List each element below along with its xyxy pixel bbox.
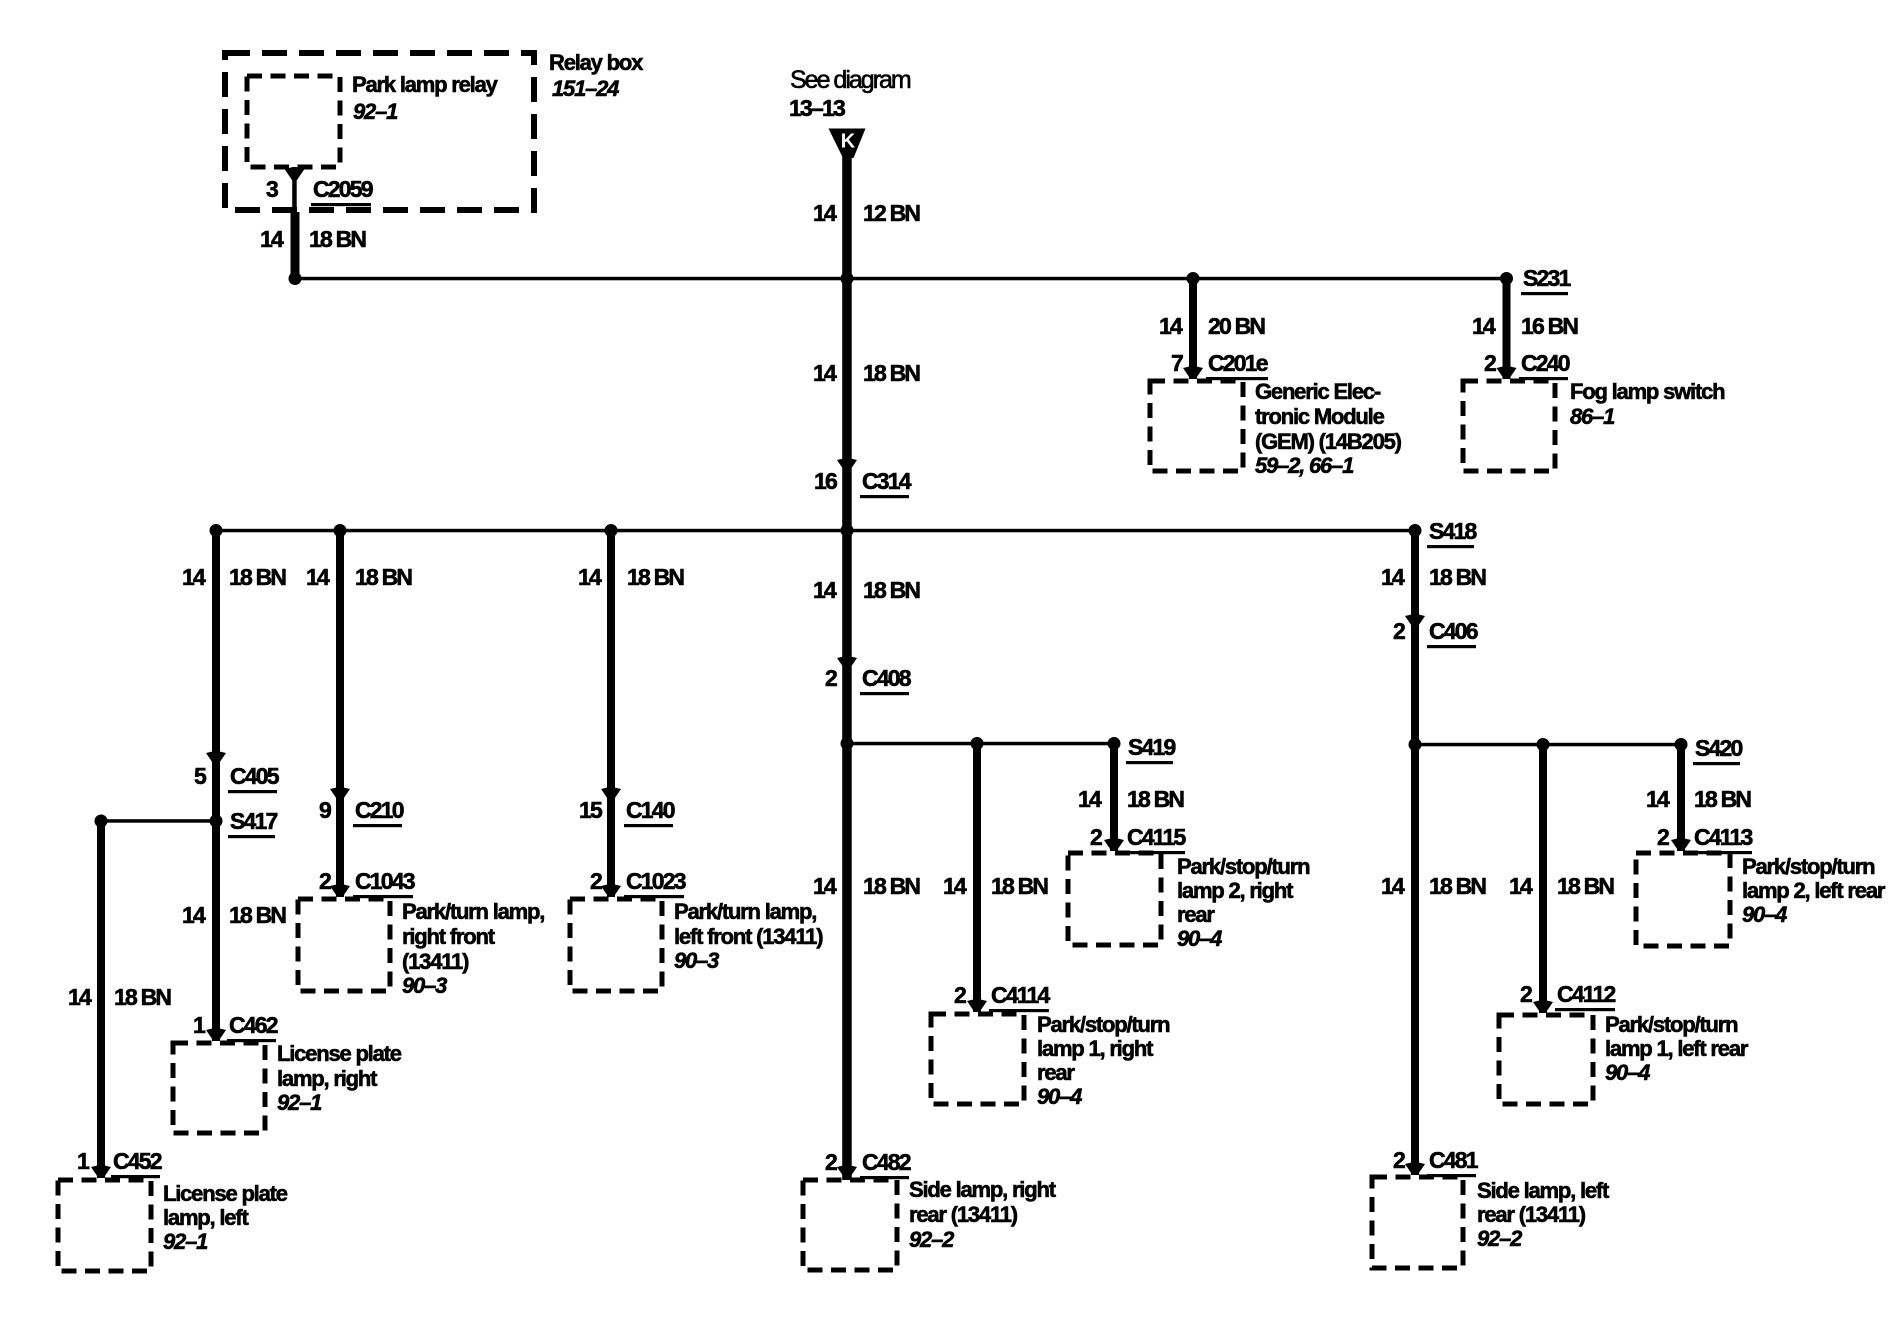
svg-text:left front (13411): left front (13411) (674, 924, 823, 949)
svg-text:92–1: 92–1 (163, 1229, 208, 1254)
wire label 14 / 18 BN (col3) (578, 564, 684, 590)
label: License plate lamp, left 92-1 (163, 1181, 288, 1254)
connector C4113 pin 2 (1657, 824, 1753, 854)
svg-text:14: 14 (1472, 313, 1496, 339)
label: See diagram 13-13 (789, 66, 911, 121)
svg-text:S417: S417 (230, 808, 278, 834)
svg-text:18 BN: 18 BN (1429, 873, 1486, 899)
relay box (outer dashed box) (225, 53, 534, 210)
svg-text:2: 2 (1090, 824, 1102, 850)
svg-text:C481: C481 (1429, 1147, 1479, 1173)
junction: splice S420 (1675, 738, 1688, 751)
park/stop/turn lamp 1 right rear (dashed box) (931, 1014, 1024, 1104)
wire label 14 / 18 BN (trunk mid) (813, 577, 920, 603)
arrow into C4114 (967, 999, 987, 1012)
svg-text:14: 14 (1381, 564, 1405, 590)
svg-text:20 BN: 20 BN (1208, 313, 1265, 339)
svg-text:14: 14 (306, 564, 330, 590)
svg-text:Park/turn lamp,: Park/turn lamp, (674, 899, 816, 924)
svg-text:Side lamp, right: Side lamp, right (909, 1177, 1057, 1202)
label: Generic Electronic Module (GEM) (14B205) 59-2, 66-1 (1255, 379, 1402, 478)
junction: col3 on bus 2 (605, 524, 618, 537)
wire: C4114 drop (x=977) (973, 743, 981, 1012)
wire: S231 drop (x=1506) (1503, 278, 1511, 379)
svg-text:C1023: C1023 (626, 868, 686, 894)
svg-text:18 BN: 18 BN (229, 564, 286, 590)
connector C408 pin 2 (825, 665, 912, 695)
connector C405 pin 5 (194, 763, 280, 793)
label: Park/stop/turn lamp 2, left rear 90-4 (1742, 854, 1886, 927)
svg-text:S420: S420 (1695, 735, 1743, 761)
connector C481 pin 2 (1393, 1147, 1479, 1177)
svg-text:59–2, 66–1: 59–2, 66–1 (1255, 453, 1354, 478)
arrow into C314 (837, 458, 857, 471)
wire: main trunk from K to side lamp (x=847) (842, 150, 852, 1180)
svg-text:3: 3 (266, 176, 278, 202)
arrow into C1043 (330, 884, 350, 897)
splice S418 label (1427, 518, 1478, 548)
connector C406 pin 2 (1393, 618, 1478, 648)
svg-text:C240: C240 (1521, 350, 1570, 376)
wire label 14 / 18 BN (right col upper) (1381, 564, 1486, 590)
svg-text:18 BN: 18 BN (355, 564, 412, 590)
wire label 14 / 18 BN (S419 drop) (1078, 786, 1184, 812)
svg-text:1: 1 (77, 1148, 90, 1174)
wire: S420 branch bus (1415, 743, 1682, 747)
label: Park/turn lamp, right front (13411) 90-3 (402, 899, 544, 998)
svg-text:C4114: C4114 (991, 982, 1051, 1008)
wire: bus 2 from col1 to S418 (215, 529, 1416, 533)
svg-text:18 BN: 18 BN (863, 360, 920, 386)
arrow into C4112 (1533, 1000, 1553, 1013)
arrow into C210 (330, 787, 350, 800)
connector C314 pin 16 (814, 468, 912, 498)
license plate lamp right (dashed box) (173, 1043, 265, 1133)
svg-text:16 BN: 16 BN (1521, 313, 1578, 339)
arrow into C4115 (1104, 838, 1124, 851)
svg-text:(13411): (13411) (402, 949, 469, 974)
junction: relay drop to bus (289, 272, 302, 285)
junction: right col at S420 branch (1409, 738, 1422, 751)
svg-text:C482: C482 (862, 1149, 911, 1175)
wire: S420 drop (x=1681) (1677, 744, 1685, 851)
svg-text:18 BN: 18 BN (1429, 564, 1486, 590)
connector C240 pin 2 (1484, 350, 1570, 380)
wire label 14 / 20 BN (1159, 313, 1265, 339)
arrow into C452 (91, 1165, 111, 1178)
svg-text:Generic Elec-: Generic Elec- (1255, 379, 1381, 404)
off-page connector triangle K (829, 129, 866, 159)
svg-text:License plate: License plate (277, 1041, 402, 1066)
svg-text:13–13: 13–13 (789, 95, 845, 121)
svg-text:18 BN: 18 BN (1557, 873, 1614, 899)
svg-text:18 BN: 18 BN (991, 873, 1048, 899)
svg-text:lamp 1, left rear: lamp 1, left rear (1605, 1036, 1749, 1061)
svg-text:14: 14 (260, 226, 284, 252)
wire: column 2 (x=340) (336, 530, 344, 897)
svg-text:Park/stop/turn: Park/stop/turn (1037, 1012, 1170, 1037)
svg-text:14: 14 (1078, 786, 1102, 812)
svg-text:Park/stop/turn: Park/stop/turn (1605, 1012, 1738, 1037)
svg-text:Relay box: Relay box (549, 50, 644, 75)
park lamp relay (inner dashed box) (247, 76, 340, 167)
svg-text:90–4: 90–4 (1605, 1060, 1650, 1085)
svg-text:90–3: 90–3 (674, 948, 719, 973)
arrow into C405 (206, 751, 226, 764)
svg-text:14: 14 (1646, 786, 1670, 812)
svg-text:1: 1 (193, 1012, 206, 1038)
connector C210 pin 9 (319, 797, 404, 827)
svg-text:lamp 2, left rear: lamp 2, left rear (1742, 878, 1886, 903)
svg-text:5: 5 (194, 763, 207, 789)
svg-text:2: 2 (954, 982, 966, 1008)
svg-text:C462: C462 (229, 1012, 278, 1038)
svg-text:License plate: License plate (163, 1181, 288, 1206)
svg-text:90–4: 90–4 (1177, 926, 1222, 951)
connector C1043 pin 2 (319, 868, 415, 898)
svg-text:C4112: C4112 (1557, 981, 1616, 1007)
svg-text:14: 14 (1381, 873, 1405, 899)
junction: left end of S417 branch (95, 815, 108, 828)
svg-text:2: 2 (1393, 618, 1405, 644)
svg-text:14: 14 (1159, 313, 1183, 339)
wire label 14 / 18 BN (trunk lower) (813, 873, 920, 899)
wire: S419 branch bus (847, 742, 1115, 746)
arrow into C4113 (1671, 838, 1691, 851)
connector C1023 pin 2 (590, 868, 686, 898)
svg-text:90–4: 90–4 (1742, 902, 1787, 927)
svg-text:7: 7 (1171, 350, 1183, 376)
svg-text:90–3: 90–3 (402, 973, 447, 998)
svg-text:15: 15 (579, 797, 603, 823)
svg-text:lamp 1, right: lamp 1, right (1037, 1036, 1154, 1061)
junction: splice S419 (1108, 737, 1121, 750)
junction: trunk at bus 2 (841, 524, 854, 537)
side lamp right rear (dashed box) (803, 1180, 897, 1270)
wire label 14 / 18 BN (relay drop) (260, 226, 366, 252)
svg-text:rear: rear (1037, 1060, 1075, 1085)
svg-text:tronic Module: tronic Module (1255, 404, 1385, 429)
svg-text:2: 2 (1393, 1147, 1405, 1173)
wire label 14 / 18 BN (C4112 drop) (1509, 873, 1614, 899)
svg-text:9: 9 (319, 797, 331, 823)
label: License plate lamp, right 92-1 (277, 1041, 402, 1115)
svg-text:C2059: C2059 (313, 176, 373, 202)
wire label 14 / 18 BN (col1 upper) (182, 564, 286, 590)
connector C4112 pin 2 (1520, 981, 1616, 1011)
wire: C4112 drop (x=1543) (1539, 744, 1547, 1013)
splice S231 label (1521, 265, 1572, 295)
arrow into C2059 (285, 167, 305, 180)
svg-text:right front: right front (402, 924, 496, 949)
wire label 14 / 18 BN (left column) (68, 984, 171, 1010)
park/stop/turn lamp 1 left rear (dashed box) (1499, 1015, 1593, 1104)
svg-text:Side lamp, left: Side lamp, left (1477, 1178, 1610, 1203)
svg-text:2: 2 (825, 665, 837, 691)
svg-text:18 BN: 18 BN (627, 564, 684, 590)
svg-text:Park lamp relay: Park lamp relay (352, 72, 499, 97)
splice S419 label (1126, 734, 1176, 764)
svg-text:2: 2 (825, 1149, 837, 1175)
wire: bus 1 from relay to S231 (295, 277, 1507, 281)
park/turn lamp left front (dashed box) (570, 899, 662, 991)
svg-text:14: 14 (813, 200, 837, 226)
svg-text:86–1: 86–1 (1570, 404, 1615, 429)
junction: col2 on bus 2 (334, 524, 347, 537)
svg-text:Fog lamp switch: Fog lamp switch (1570, 379, 1725, 404)
junction: splice S231 (1500, 272, 1513, 285)
svg-text:92–1: 92–1 (277, 1090, 322, 1115)
junction: C4114 drop on S419 bus (971, 737, 984, 750)
svg-text:lamp, right: lamp, right (277, 1066, 378, 1091)
svg-text:14: 14 (813, 360, 837, 386)
wire: S417 branch bus (101, 819, 216, 823)
svg-text:2: 2 (1484, 350, 1496, 376)
arrow into C406 (1405, 614, 1425, 627)
wire label 14 / 18 BN (col2) (306, 564, 412, 590)
junction: C4112 drop on S420 bus (1537, 738, 1550, 751)
svg-text:18 BN: 18 BN (309, 226, 366, 252)
connector C452 pin 1 (77, 1148, 162, 1178)
junction: trunk at bus 1 (841, 272, 854, 285)
arrow into C481 (1405, 1162, 1425, 1175)
connector C462 pin 1 (193, 1012, 278, 1042)
wire: S419 drop (x=1114) (1110, 743, 1118, 851)
svg-text:C408: C408 (862, 665, 912, 691)
arrow into C201e (1183, 366, 1203, 379)
arrow into C462 (206, 1028, 226, 1041)
wire: relay pin 3 lead (291, 167, 300, 279)
generic electronic module (dashed box) (1150, 381, 1243, 471)
svg-text:lamp 2, right: lamp 2, right (1177, 878, 1294, 903)
svg-text:rear (13411): rear (13411) (1477, 1202, 1586, 1227)
svg-text:18 BN: 18 BN (863, 577, 920, 603)
svg-text:151–24: 151–24 (552, 76, 619, 101)
svg-text:14: 14 (813, 873, 837, 899)
svg-text:90–4: 90–4 (1037, 1084, 1082, 1109)
svg-text:C405: C405 (230, 763, 280, 789)
svg-text:C140: C140 (626, 797, 675, 823)
connector C2059 pin 3 (266, 176, 373, 206)
label: Relay box 151-24 (549, 50, 644, 101)
wire: column 1 (x=216) (212, 530, 220, 1041)
svg-text:18 BN: 18 BN (229, 902, 286, 928)
wire: right column (x=1415) (1411, 530, 1419, 1175)
svg-text:C1043: C1043 (355, 868, 415, 894)
svg-text:rear: rear (1177, 902, 1215, 927)
wire: left column (x=101) (97, 821, 105, 1178)
label: Fog lamp switch 86-1 (1570, 379, 1725, 429)
fog lamp switch (dashed box) (1463, 381, 1555, 471)
side lamp left rear (dashed box) (1372, 1177, 1463, 1268)
label: Side lamp, left rear (13411) 92-2 (1477, 1178, 1610, 1251)
arrow into C240 (1497, 366, 1517, 379)
svg-text:16: 16 (814, 468, 837, 494)
label: Side lamp, right rear (13411) 92-2 (909, 1177, 1057, 1252)
connector C4115 pin 2 (1090, 824, 1187, 854)
svg-text:18 BN: 18 BN (1127, 786, 1184, 812)
label: Park lamp relay 92-1 (352, 72, 499, 124)
svg-text:14: 14 (943, 873, 967, 899)
svg-text:2: 2 (1657, 824, 1669, 850)
svg-text:2: 2 (319, 868, 331, 894)
svg-text:2: 2 (1520, 981, 1532, 1007)
svg-text:Park/stop/turn: Park/stop/turn (1177, 854, 1310, 879)
connector C482 pin 2 (825, 1149, 911, 1179)
park/stop/turn lamp 2 left rear (dashed box) (1636, 853, 1730, 946)
label: Park/stop/turn lamp 2, right rear 90-4 (1177, 854, 1310, 951)
park/turn lamp right front (dashed box) (298, 899, 390, 991)
svg-text:14: 14 (578, 564, 602, 590)
wire label 14 / 18 BN (trunk upper) (813, 360, 920, 386)
svg-text:14: 14 (182, 902, 206, 928)
junction: trunk at S419 branch (841, 737, 854, 750)
park/stop/turn lamp 2 right rear (dashed box) (1068, 853, 1161, 945)
svg-text:C314: C314 (862, 468, 912, 494)
svg-text:C406: C406 (1429, 618, 1478, 644)
wire label 14 / 12 BN (813, 200, 920, 226)
arrow into C1023 (601, 884, 621, 897)
wire label 14 / 18 BN (C4114 drop) (943, 873, 1048, 899)
junction: splice S417 (210, 815, 223, 828)
wire: GEM drop (x=1193) (1189, 278, 1197, 379)
wire: column 3 (x=611) (607, 530, 615, 897)
svg-text:(GEM) (14B205): (GEM) (14B205) (1255, 429, 1402, 454)
svg-text:92–2: 92–2 (909, 1227, 955, 1252)
svg-text:K: K (841, 131, 856, 153)
svg-text:C4115: C4115 (1127, 824, 1187, 850)
arrow into C140 (601, 787, 621, 800)
svg-text:C201e: C201e (1208, 350, 1268, 376)
license plate lamp left (dashed box) (58, 1180, 151, 1271)
label: Park/turn lamp, left front (13411) 90-3 (674, 899, 823, 973)
svg-text:2: 2 (590, 868, 602, 894)
svg-text:C210: C210 (355, 797, 404, 823)
label: Park/stop/turn lamp 1, left rear 90-4 (1605, 1012, 1749, 1085)
label: Park/stop/turn lamp 1, right rear 90-4 (1037, 1012, 1170, 1109)
svg-text:14: 14 (813, 577, 837, 603)
wire label 14 / 18 BN (S420 drop) (1646, 786, 1751, 812)
svg-text:14: 14 (1509, 873, 1533, 899)
svg-text:S418: S418 (1429, 518, 1478, 544)
splice S417 label (228, 808, 278, 838)
arrow into C482 (837, 1165, 857, 1178)
svg-text:12 BN: 12 BN (863, 200, 920, 226)
svg-text:Park/turn lamp,: Park/turn lamp, (402, 899, 544, 924)
junction: splice S418 (1409, 524, 1422, 537)
svg-text:92–2: 92–2 (1477, 1226, 1523, 1251)
svg-text:Park/stop/turn: Park/stop/turn (1742, 854, 1875, 879)
svg-text:C452: C452 (113, 1148, 162, 1174)
svg-text:92–1: 92–1 (353, 99, 398, 124)
wire label 14 / 18 BN (right col lower) (1381, 873, 1486, 899)
svg-text:14: 14 (68, 984, 92, 1010)
svg-text:C4113: C4113 (1694, 824, 1753, 850)
svg-text:14: 14 (182, 564, 206, 590)
junction: GEM drop on bus 1 (1187, 272, 1200, 285)
svg-text:rear (13411): rear (13411) (909, 1202, 1018, 1227)
connector C4114 pin 2 (954, 982, 1051, 1012)
svg-text:S231: S231 (1523, 265, 1572, 291)
svg-text:See diagram: See diagram (790, 66, 911, 94)
junction: col1 on bus 2 (210, 524, 223, 537)
connector C140 pin 15 (579, 797, 675, 827)
splice S420 label (1693, 735, 1743, 765)
arrow into C408 (837, 656, 857, 669)
svg-text:18 BN: 18 BN (863, 873, 920, 899)
wire label 14 / 18 BN (col1 lower) (182, 902, 286, 928)
wire label 14 / 16 BN (1472, 313, 1578, 339)
svg-text:S419: S419 (1128, 734, 1176, 760)
svg-text:18 BN: 18 BN (114, 984, 171, 1010)
svg-text:lamp, left: lamp, left (163, 1205, 249, 1230)
svg-text:18 BN: 18 BN (1694, 786, 1751, 812)
connector C201e pin 7 (1171, 350, 1268, 380)
